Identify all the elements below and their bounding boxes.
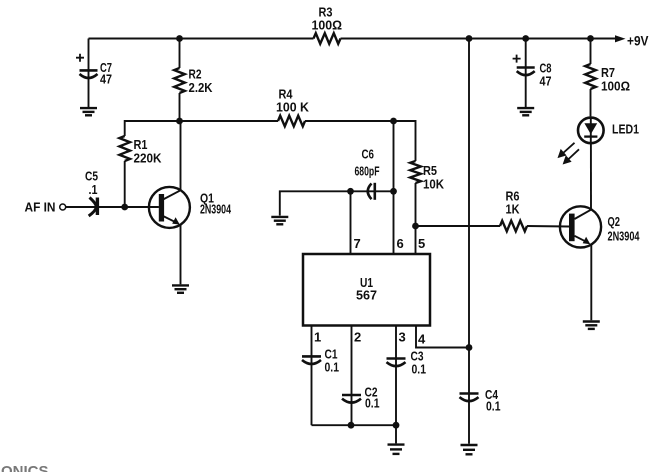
junction: C2 / bottom rail — [348, 422, 355, 429]
svg-text:5: 5 — [418, 236, 425, 251]
svg-text:1K: 1K — [506, 202, 521, 217]
wire: second rail left segment (R1 top to R4) — [125, 121, 278, 136]
capacitor C2 (0.1) on pin 2 — [342, 326, 380, 426]
svg-text:2.2K: 2.2K — [189, 80, 214, 95]
node: AF IN input terminal — [25, 200, 66, 215]
svg-text:0.1: 0.1 — [486, 399, 501, 414]
transistor Q2 (2N3904) — [560, 206, 640, 247]
svg-text:AF IN: AF IN — [25, 200, 56, 215]
capacitor C7 (electrolytic, 47) — [76, 39, 112, 108]
wire: pin 4 to C4 branch — [416, 326, 469, 348]
svg-text:0.1: 0.1 — [412, 362, 427, 377]
junction: pin4 branch / top rail — [466, 35, 473, 42]
resistor R7 (100 ohm) — [585, 39, 630, 117]
wire: Q1 collector up to second rail — [180, 121, 182, 190]
resistor R2 (2.2K) — [174, 39, 213, 122]
wire: Q2 emitter to ground — [590, 245, 592, 321]
junction: C8 / top rail — [522, 35, 529, 42]
svg-text:567: 567 — [356, 289, 377, 303]
svg-text:100Ω: 100Ω — [601, 79, 630, 94]
IC U1 (567) — [303, 254, 430, 326]
svg-text:+9V: +9V — [627, 34, 649, 49]
svg-text:2N3904: 2N3904 — [608, 229, 641, 244]
wire: second rail right segment (R4 to R5 top) — [305, 121, 416, 161]
light emission arrows — [558, 143, 580, 165]
wire: bottom rail C1 to C3 — [312, 424, 397, 426]
ground: C6 left plate — [271, 217, 288, 224]
capacitor C8 (electrolytic, 47) — [513, 39, 552, 108]
junction: C6 left / pin7 line — [347, 188, 354, 195]
resistor R3 — [312, 5, 343, 44]
ground: Q1 emitter — [172, 285, 189, 292]
junction: R7 / top rail — [587, 35, 594, 42]
svg-text:2N3904: 2N3904 — [200, 202, 232, 217]
svg-text:7: 7 — [354, 236, 361, 251]
svg-text:0.1: 0.1 — [365, 396, 380, 411]
svg-text:47: 47 — [100, 72, 112, 87]
ground: bottom rail — [388, 445, 405, 454]
resistor R5 (10K) — [410, 161, 444, 254]
capacitor C6 (680pF) — [355, 147, 380, 200]
svg-text:LED1: LED1 — [612, 122, 639, 137]
junction: R1 bottom / Q1 base line — [121, 204, 128, 211]
resistor R6 (1K) — [500, 189, 527, 232]
junction: R2 / top rail — [176, 35, 183, 42]
junction: R2 bottom / second rail / Q1 collector — [176, 118, 183, 125]
wire: R6 to Q2 base — [527, 225, 569, 228]
ground: below C8 — [517, 108, 534, 115]
wire: +9V top rail right segment — [341, 38, 618, 40]
wire: C6 net left segment and drop to ground — [280, 191, 394, 215]
resistor R4 (100 K) — [276, 87, 310, 127]
capacitor C5 (.1) — [85, 169, 98, 217]
junction: pin4 / C4 vertical — [466, 344, 473, 351]
svg-text:6: 6 — [397, 236, 404, 251]
svg-text:100Ω: 100Ω — [312, 18, 343, 33]
wire: R5 junction to R6 — [416, 225, 501, 227]
svg-text:3: 3 — [399, 330, 406, 345]
capacitor C1 (0.1) on pin 1 — [302, 326, 339, 426]
svg-text:Q2: Q2 — [608, 214, 621, 229]
svg-text:.1: .1 — [89, 182, 98, 197]
junction: R5 bottom / R6 wire / pin5 — [412, 223, 419, 230]
junction: pin6 line / second rail — [390, 118, 397, 125]
capacitor C3 (0.1) on pin 3 — [387, 326, 427, 426]
resistor R1 (220K) — [119, 136, 162, 207]
svg-text:2: 2 — [354, 330, 361, 345]
svg-text:220K: 220K — [134, 151, 163, 166]
svg-text:4: 4 — [418, 332, 426, 347]
ground: below C7 — [80, 108, 97, 115]
capacitor C4 (0.1) — [460, 387, 501, 414]
svg-text:1: 1 — [314, 330, 321, 345]
ground: below C4 — [461, 445, 478, 454]
transistor Q1 (2N3904) — [149, 187, 232, 228]
svg-text:10K: 10K — [423, 177, 445, 192]
svg-text:C6: C6 — [362, 147, 375, 162]
wire: U1 pin 6 — [393, 121, 395, 254]
junction: C6 right / pin6 line — [390, 188, 397, 195]
svg-text:680pF: 680pF — [355, 164, 380, 179]
junction: C3 line / bottom rail / ground — [393, 422, 400, 429]
LED LED1 — [578, 118, 639, 144]
svg-text:ONICS: ONICS — [1, 463, 49, 472]
wire: bottom rail to ground — [395, 425, 397, 443]
wire: AF IN to C5 — [66, 206, 159, 208]
svg-text:0.1: 0.1 — [325, 360, 340, 375]
wire: LED1 cathode to Q2 collector — [590, 143, 592, 209]
wire: long vertical from top rail to pin4/C4 — [468, 39, 470, 444]
svg-text:100 K: 100 K — [276, 100, 310, 115]
svg-text:47: 47 — [540, 74, 552, 89]
wire: +9V top rail left segment — [89, 38, 314, 40]
ground: Q2 emitter — [583, 322, 600, 329]
wire: Q1 emitter down to ground — [180, 225, 182, 285]
node: +9V supply arrow and label — [615, 34, 649, 49]
wire: U1 pin 7 — [350, 191, 352, 254]
